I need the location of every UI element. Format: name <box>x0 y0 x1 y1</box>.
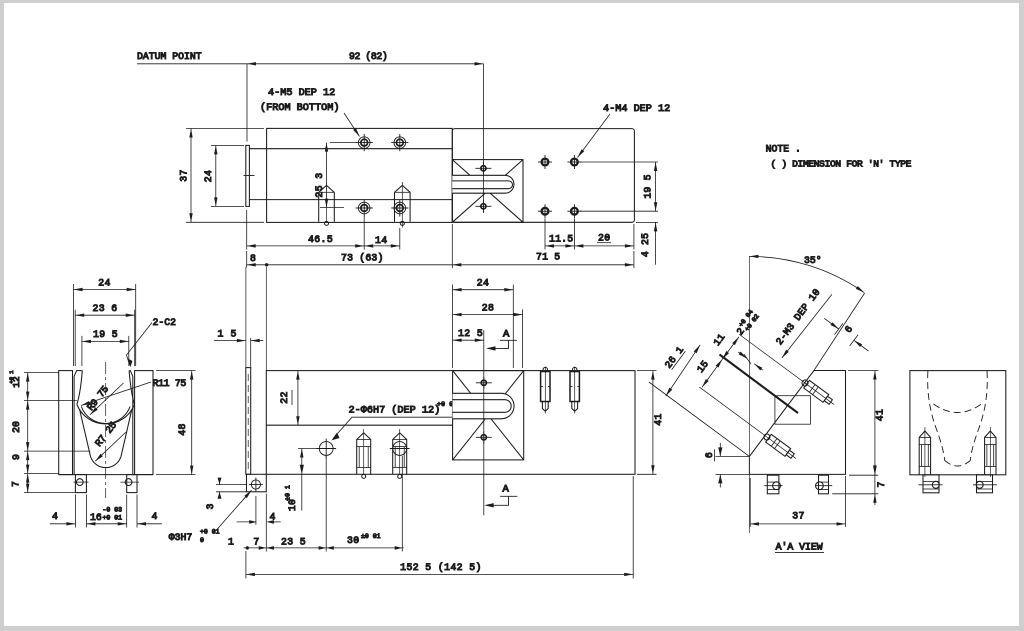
foot box with pin <box>247 474 267 492</box>
face extension line <box>814 293 865 370</box>
svg-text:4 25: 4 25 <box>640 233 651 257</box>
left wall <box>59 371 73 475</box>
dim 28 <box>453 309 523 368</box>
dim 46.5 / 14 <box>247 210 400 250</box>
slot outer (front) <box>453 393 514 419</box>
svg-text:6: 6 <box>843 324 855 335</box>
dim 41 AA <box>848 371 878 475</box>
svg-text:26 1: 26 1 <box>663 344 686 370</box>
svg-text:±0 1: ±0 1 <box>285 485 292 501</box>
svg-text:24: 24 <box>477 278 490 289</box>
U-groove outer arc R11.75 <box>77 405 135 425</box>
35 deg arc <box>749 256 864 292</box>
svg-text:12 5: 12 5 <box>458 328 483 339</box>
svg-text:92 (82): 92 (82) <box>349 51 387 62</box>
section block outline <box>749 371 845 475</box>
svg-text:46.5: 46.5 <box>308 234 333 245</box>
svg-text:48: 48 <box>177 423 188 436</box>
stopper bolt front 2 <box>393 429 407 478</box>
stopper bolt plan 2 <box>395 182 411 228</box>
svg-text:1: 1 <box>228 537 234 548</box>
right wall <box>135 371 153 475</box>
svg-text:73 (63): 73 (63) <box>341 253 384 264</box>
crosshair front top <box>476 377 492 389</box>
foot AA left <box>764 475 782 494</box>
end plate (front) <box>246 368 251 475</box>
rear bolt left <box>919 427 930 477</box>
svg-text:23 6: 23 6 <box>92 303 117 314</box>
dim 19.5 <box>580 162 658 211</box>
dim 24 side <box>74 284 136 366</box>
foot right <box>121 475 140 493</box>
M5 hole 3 <box>356 199 373 216</box>
slider block sides <box>73 376 75 474</box>
svg-text:37: 37 <box>792 511 805 522</box>
svg-text:71 5: 71 5 <box>536 252 560 263</box>
svg-text:R11 75: R11 75 <box>153 378 187 389</box>
svg-text:30: 30 <box>347 535 360 546</box>
pin hole phi3 <box>249 478 263 492</box>
svg-text:2-M3 DEP 10: 2-M3 DEP 10 <box>774 287 823 347</box>
body (front) <box>266 371 635 475</box>
datum leader line <box>137 63 247 65</box>
svg-text:NOTE .: NOTE . <box>766 144 801 155</box>
dim 37 <box>186 129 264 223</box>
svg-text:41: 41 <box>875 409 886 422</box>
dim 3 <box>216 478 247 499</box>
M4 hole 1 <box>538 155 552 169</box>
pocket axis thick line <box>720 355 799 414</box>
rear foot left <box>919 475 943 493</box>
bowtie block (front) <box>453 371 524 460</box>
M4 hole 4 <box>567 204 581 218</box>
svg-text:4: 4 <box>52 511 58 522</box>
svg-text:152 5 (142 5): 152 5 (142 5) <box>400 562 482 573</box>
svg-text:9: 9 <box>11 454 22 460</box>
svg-text:22: 22 <box>279 391 290 404</box>
body (plan) <box>267 128 453 222</box>
end plate (plan) <box>246 145 250 206</box>
svg-text:( ) DIMENSION FOR 'N' TYPE: ( ) DIMENSION FOR 'N' TYPE <box>771 159 912 170</box>
svg-text:DATUM POINT: DATUM POINT <box>137 51 202 62</box>
dim 24 above block <box>453 285 514 369</box>
slot rod <box>452 181 512 189</box>
dim 6 upper <box>824 318 868 351</box>
dim 11.5 / 20 <box>545 219 634 250</box>
corner extension line <box>649 382 750 456</box>
svg-text:2-Φ6H7 (DEP 12): 2-Φ6H7 (DEP 12) <box>349 405 441 417</box>
svg-text:37: 37 <box>179 169 190 182</box>
bottom dims 4 / 16 / 4 <box>50 495 162 528</box>
M4 hole 3 <box>538 204 552 218</box>
svg-text:4: 4 <box>270 512 276 523</box>
svg-text:19 5: 19 5 <box>93 329 118 340</box>
svg-text:2-C2: 2-C2 <box>153 317 177 328</box>
rail step line <box>266 424 452 426</box>
dim 4 foot <box>237 496 281 525</box>
svg-text:35°: 35° <box>804 255 822 266</box>
dim 37 AA <box>750 476 846 527</box>
pocket rect hidden <box>775 396 811 425</box>
dim 26.1 <box>666 345 700 396</box>
stopper bolt plan 1 <box>319 185 335 225</box>
svg-text:R7 25: R7 25 <box>93 420 119 449</box>
dim 4.25 <box>636 222 658 264</box>
svg-text:24: 24 <box>98 278 111 289</box>
rear bolt right <box>985 427 996 477</box>
svg-text:23 5: 23 5 <box>281 537 306 548</box>
section center line <box>748 256 750 533</box>
bottom edge <box>59 474 153 476</box>
U-groove inner arc R9.75 <box>81 407 130 424</box>
svg-text:(FROM BOTTOM): (FROM BOTTOM) <box>260 102 339 114</box>
projection line body edge <box>265 267 267 371</box>
plate mid tick <box>244 175 255 177</box>
svg-text:15: 15 <box>695 359 711 375</box>
svg-text:A: A <box>503 329 510 341</box>
svg-text:4-M4 DEP 12: 4-M4 DEP 12 <box>603 104 670 115</box>
svg-text:-0 03: -0 03 <box>103 507 123 514</box>
svg-text:Φ3H7: Φ3H7 <box>169 532 193 543</box>
dim 12.5 <box>453 339 484 341</box>
end plate hidden line <box>247 374 249 470</box>
U-groove outline <box>77 371 135 405</box>
dim 19.5 side <box>82 336 129 366</box>
svg-text:11: 11 <box>711 332 727 348</box>
slider top edges with chamfers <box>74 371 133 377</box>
projection line datum <box>245 267 247 368</box>
svg-text:14: 14 <box>375 235 388 246</box>
rear hidden U profile <box>928 371 988 466</box>
svg-text:28: 28 <box>482 303 495 314</box>
dim 1.5 <box>214 338 263 368</box>
hole phi6 left <box>316 439 336 459</box>
svg-text:A: A <box>503 484 510 496</box>
dim 7 AA <box>832 464 878 505</box>
svg-text:7: 7 <box>876 481 887 487</box>
dim 8 / 73 (63) / 71.5 <box>247 224 634 268</box>
center line <box>105 362 107 498</box>
U-groove taper lines <box>80 409 91 457</box>
svg-text:4-M5 DEP 12: 4-M5 DEP 12 <box>268 88 335 99</box>
centerline through bowtie <box>482 165 484 213</box>
dim 22 <box>297 371 299 426</box>
svg-text:+0 01: +0 01 <box>103 515 123 522</box>
M5 hole 1 <box>356 134 373 151</box>
bowtie crosshair bottom <box>475 200 491 212</box>
dim 41 front <box>637 371 657 475</box>
svg-text:8: 8 <box>250 253 256 264</box>
stopper bolt front 1 <box>357 429 371 478</box>
hang bolt 2 <box>570 367 579 414</box>
dim 2 +0.04 +0.02 <box>733 308 760 338</box>
svg-text:16: 16 <box>90 512 102 523</box>
svg-text:11.5: 11.5 <box>549 234 573 245</box>
svg-text:±0 01: ±0 01 <box>361 533 381 540</box>
svg-text:20: 20 <box>598 233 611 244</box>
M3 screw 2 <box>697 383 799 462</box>
dim 25.3 <box>320 143 357 222</box>
svg-text:19 5: 19 5 <box>643 174 654 198</box>
svg-text:3: 3 <box>205 503 216 509</box>
svg-text:1 5: 1 5 <box>218 329 237 340</box>
svg-text:25 3: 25 3 <box>314 172 325 197</box>
svg-text:7: 7 <box>253 537 259 548</box>
bowtie square with X <box>452 160 523 223</box>
svg-text:+0 1: +0 1 <box>8 370 15 384</box>
svg-text:20: 20 <box>11 421 22 433</box>
hang bolt 1 <box>541 367 550 414</box>
foot left <box>74 475 89 493</box>
bottom chain dims 1/7/23.5/30 <box>244 456 404 552</box>
M4 hole 2 <box>567 155 581 169</box>
page scan border <box>0 0 1024 3</box>
dim 6 lower left <box>716 443 750 488</box>
dim 92 (82) <box>247 64 484 165</box>
crosshair front bottom <box>476 431 492 443</box>
slot rod (front) <box>453 400 512 413</box>
svg-text:41: 41 <box>653 413 664 426</box>
M5 hole 4 <box>391 199 408 216</box>
foot AA right <box>816 475 833 494</box>
slider band lines <box>249 148 452 150</box>
dim 48 <box>156 371 196 475</box>
left chain dims 12/20/9/7 <box>24 373 90 493</box>
svg-text:7: 7 <box>11 481 22 487</box>
svg-text:6: 6 <box>704 452 715 458</box>
dim 23.6 <box>75 310 135 366</box>
hole phi6 right <box>390 442 410 456</box>
rear body <box>910 371 1006 475</box>
dim 10 +-0.1 <box>298 449 319 511</box>
U-groove bottom arc R7.25 <box>91 457 122 468</box>
slot outer <box>452 175 514 193</box>
dim 152.5 (142.5) <box>246 476 633 579</box>
svg-text:0: 0 <box>200 537 204 544</box>
svg-text:A'A VIEW: A'A VIEW <box>776 541 823 552</box>
dim 24 left <box>211 145 244 206</box>
rear foot right <box>973 475 997 493</box>
table block (plan) <box>452 129 634 223</box>
chain dim 15 / 11 <box>702 337 739 387</box>
M3 screw 1 <box>736 330 837 408</box>
M5 hole 2 <box>391 134 408 151</box>
section line A-A <box>483 330 485 515</box>
svg-text:24: 24 <box>203 170 214 183</box>
bowtie crosshair top <box>475 162 491 174</box>
svg-text:4: 4 <box>152 511 158 522</box>
